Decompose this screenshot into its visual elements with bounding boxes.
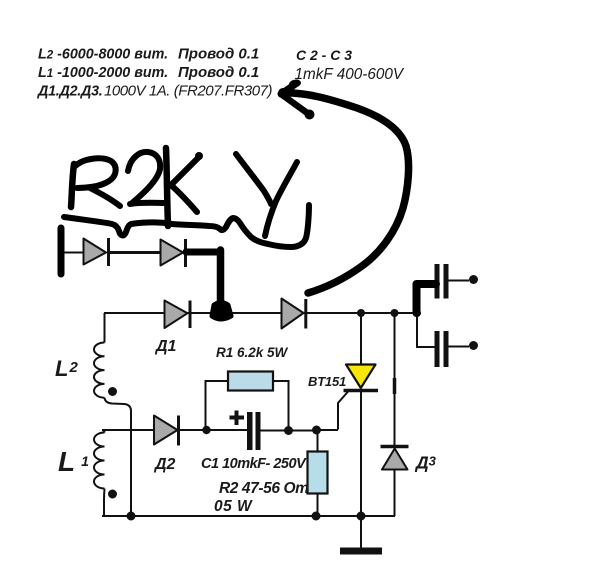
svg-text:Провод 0.1: Провод 0.1 (178, 46, 259, 63)
svg-text:Д1: Д1 (154, 338, 177, 355)
svg-text:R1 6.2k 5W: R1 6.2k 5W (216, 345, 289, 360)
svg-text:C 2 - C 3: C 2 - C 3 (296, 47, 352, 63)
svg-text:05 W: 05 W (214, 498, 253, 515)
svg-text:L2 -6000-8000 вит.: L2 -6000-8000 вит. (38, 47, 168, 63)
svg-text:R2 47-56 Om: R2 47-56 Om (219, 480, 309, 497)
svg-text:Д1.Д2.Д3.: Д1.Д2.Д3. (36, 84, 103, 100)
svg-text:1mkF 400-600V: 1mkF 400-600V (295, 66, 405, 83)
svg-text:BT151: BT151 (308, 374, 346, 389)
svg-text:Провод 0.1: Провод 0.1 (178, 64, 259, 81)
svg-text:C1 10mkF- 250V: C1 10mkF- 250V (201, 456, 307, 472)
svg-text:L1 -1000-2000 вит.: L1 -1000-2000 вит. (38, 65, 168, 81)
svg-text:1000V 1A. (FR207.FR307): 1000V 1A. (FR207.FR307) (104, 83, 273, 100)
svg-text:Д2: Д2 (153, 456, 176, 473)
